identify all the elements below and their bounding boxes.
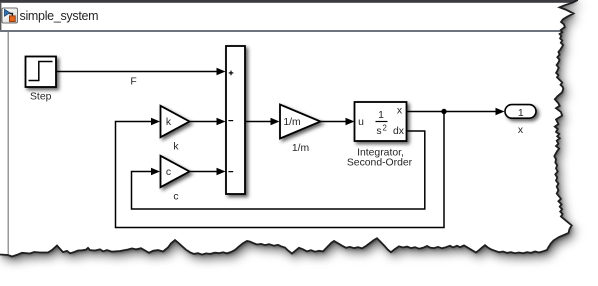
title separator line [0,30,598,32]
feedback wire x through gain k (outer loop) [116,112,445,228]
wire k to sum [190,121,218,123]
integrator second-order block [355,102,407,141]
simulink model icon button [2,8,18,23]
svg-text:x: x [518,125,524,136]
svg-text:s: s [376,126,381,137]
wire sum to gain 1/m [245,121,272,123]
svg-text:Step: Step [30,92,52,103]
svg-text:1: 1 [518,107,524,119]
feedback wire dx through gain c (inner loop) [132,131,425,209]
wire 1/m to integrator [321,121,347,123]
svg-text:c: c [166,167,171,178]
svg-text:u: u [358,117,364,128]
gain c block [161,156,190,187]
svg-text:simple_system: simple_system [20,9,99,23]
svg-text:1: 1 [378,110,384,121]
svg-text:k: k [166,117,172,128]
sum minus sign 1 [228,120,233,122]
window top border [0,0,598,3]
svg-text:dx: dx [393,126,405,137]
sum minus sign 2 [228,171,233,173]
svg-text:Second-Order: Second-Order [347,158,413,169]
svg-text:F: F [130,77,136,88]
svg-text:x: x [397,106,403,117]
wire step to sum [57,71,218,73]
sum block [226,46,245,194]
wire c to sum [190,171,218,173]
svg-text:k: k [173,142,179,153]
svg-text:c: c [173,192,178,203]
canvas left border [8,32,9,254]
svg-text:1/m: 1/m [283,117,300,128]
icon step connector [9,14,12,17]
wire integrator x to outport [407,111,498,113]
svg-text:1/m: 1/m [292,143,309,154]
icon orange square [10,16,16,22]
gain 1/m block [280,105,321,139]
svg-text:2: 2 [383,124,387,133]
gain k block [161,106,190,137]
step block [26,57,57,88]
sum plus sign [229,71,234,76]
icon blue play triangle [5,9,10,16]
outport block 1 [505,105,536,119]
junction dot [441,109,446,114]
window left border [0,3,1,31]
